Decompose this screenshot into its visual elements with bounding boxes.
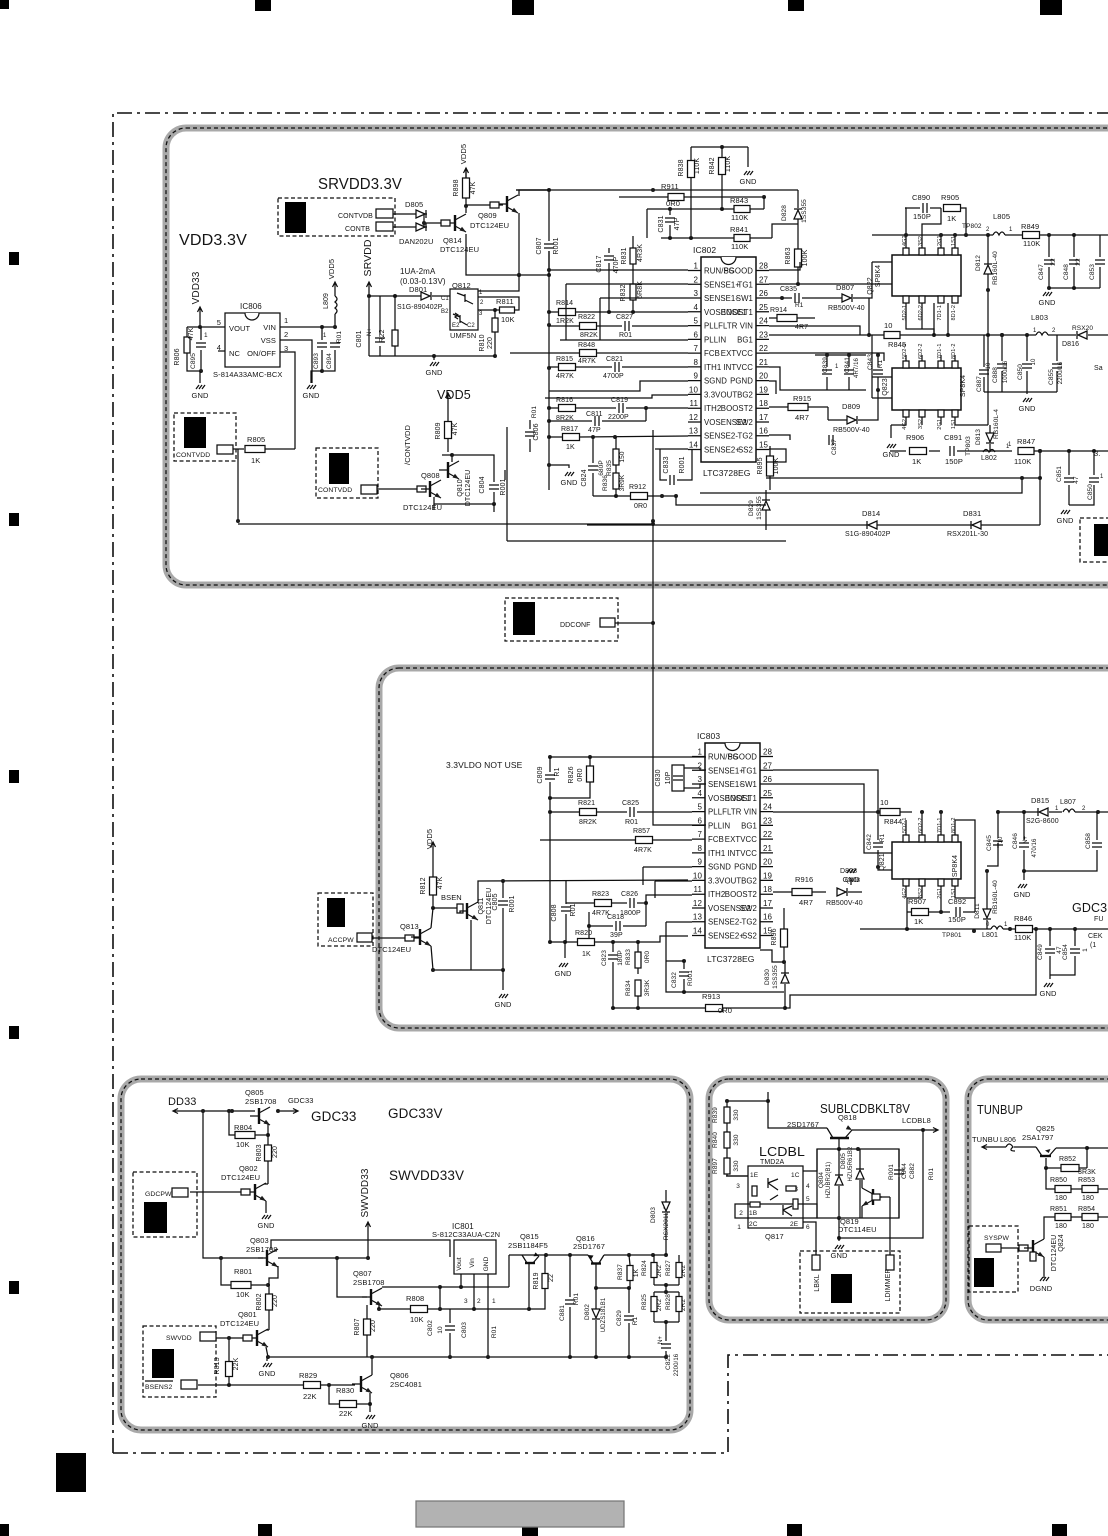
svg-text:DTC124EU: DTC124EU [440,245,479,254]
wire Q814 emitter down [422,213,426,228]
diode D830 SS355 vertical [764,962,789,1008]
capacitor C811 2200P [549,408,646,426]
wire Q824 collector [1044,1217,1046,1239]
svg-text:C847: C847 [1038,264,1045,280]
svg-text:VSS: VSS [261,336,276,345]
ground Q801 [259,1347,276,1378]
svg-text:Q811: Q811 [478,897,485,914]
wire Q817 pin6 to LBKL [803,1222,816,1255]
net label CEK [1088,933,1103,949]
resistor R829 22K [229,1371,355,1401]
svg-text:5D2-1: 5D2-1 [902,818,908,833]
footer gray bar [416,1501,624,1527]
svg-text:R831: R831 [621,247,628,264]
transistor Q803 2SB1708 [246,1236,278,1267]
power supply block 1 outline [166,128,1108,585]
wire left bus x548 [547,251,551,490]
resistor R895b 100K vertical [771,908,788,964]
transistor Q805 2SB1708 [245,1088,277,1125]
net label VDD5 [437,388,471,402]
svg-text:10P: 10P [665,771,672,784]
svg-text:330: 330 [733,1160,740,1171]
svg-text:C801: C801 [356,330,363,347]
svg-text:22: 22 [548,1274,555,1282]
svg-text:SWVDD33V: SWVDD33V [389,1168,464,1183]
svg-text:R822: R822 [578,314,595,321]
svg-text:SS2: SS2 [742,932,757,941]
resistor R851 R854 row [1046,1206,1108,1230]
svg-text:R913: R913 [702,992,720,1001]
svg-text:2SB1708: 2SB1708 [353,1278,385,1287]
wire bottom rail accpw [431,920,505,972]
svg-text:N+: N+ [367,328,373,336]
svg-text:R850: R850 [1050,1177,1067,1184]
ground under Q812 [369,354,495,377]
svg-text:RSX201L-30: RSX201L-30 [947,531,988,538]
svg-text:BOOST2: BOOST2 [725,890,757,899]
svg-text:TP801: TP801 [942,932,962,939]
svg-text:C882: C882 [909,1163,916,1179]
svg-text:7D1-1: 7D1-1 [937,305,943,320]
svg-text:SWVDD33: SWVDD33 [360,1168,371,1217]
svg-text:ITH1: ITH1 [708,849,725,858]
svg-text:R815: R815 [556,356,573,363]
svg-text:1E: 1E [750,1172,759,1179]
svg-text:47P: 47P [588,427,601,434]
resistor R817 1K 47P [549,426,688,451]
diode D816 [1062,331,1108,348]
svg-text:Q807: Q807 [353,1269,372,1278]
ground Q802 [258,1201,275,1230]
resistor R01 vertical at L809 [336,331,343,344]
net label GDC33 big [311,1109,357,1124]
svg-text:2: 2 [1052,328,1056,334]
diode D813 vertical [975,425,994,452]
svg-text:Q817: Q817 [765,1232,784,1241]
svg-text:GDC33: GDC33 [288,1096,314,1105]
svg-text:Q822: Q822 [867,277,874,295]
svg-text:R01: R01 [928,1168,935,1181]
svg-text:LCDBL8: LCDBL8 [902,1116,931,1125]
svg-text:C881: C881 [559,1305,566,1321]
capacitor C847 22 [1038,235,1057,290]
registration mark top 4 [788,0,804,11]
svg-text:R897: R897 [712,1158,719,1174]
svg-text:D803: D803 [650,1207,657,1223]
wire rail y190 [516,188,798,208]
svg-text:LTC3728EG: LTC3728EG [703,468,751,478]
net label SRVDD3.3V [318,176,403,193]
resistor R830 22K [329,1385,372,1418]
ground Q823 [883,417,988,459]
svg-text:8: 8 [697,844,702,853]
svg-text:150: 150 [619,451,626,462]
power arrow above R809 [446,393,451,404]
svg-text:47K: 47K [452,422,459,435]
svg-text:GND: GND [303,391,320,400]
net label DD33 [168,1096,197,1108]
resistor R857 4R7K [540,828,692,854]
svg-text:PLLFLTR: PLLFLTR [704,322,738,331]
svg-text:1K: 1K [633,1268,640,1277]
svg-text:C818: C818 [607,914,624,921]
capacitor C817 470P vertical [596,248,620,314]
resistor R805 1K [233,435,295,465]
svg-text:47K: 47K [437,876,444,889]
resistor R850 R853 row [1046,1168,1108,1202]
diode D807 RB500V-40 [815,262,872,312]
svg-text:VDD5: VDD5 [459,144,468,164]
svg-text:2E: 2E [790,1221,799,1228]
resistor R822 8R2K [549,314,622,339]
svg-text:0R0: 0R0 [666,199,680,208]
svg-text:UDZS181B1: UDZS181B1 [601,1297,607,1332]
capacitor C892 150P [948,897,975,924]
svg-text:9: 9 [693,372,698,381]
svg-text:C848: C848 [1063,264,1070,280]
svg-text:3: 3 [464,1298,468,1305]
svg-text:L803: L803 [1031,313,1048,322]
svg-text:4G2: 4G2 [902,419,908,430]
svg-text:DTC114EU: DTC114EU [838,1225,877,1234]
wire SWVDD to Q801 [216,1337,243,1339]
resistor R845 10 [769,321,906,349]
diode D809 RB500V-40 [828,390,878,434]
svg-text:FU: FU [1094,916,1104,923]
svg-text:12: 12 [693,899,703,908]
svg-text:2: 2 [284,330,288,339]
wire SYSPW to Q824 [1001,1245,1028,1251]
resistor R01 block4 vertical [837,1130,935,1240]
svg-text:TUNBUP: TUNBUP [977,1102,1023,1117]
svg-text:R839: R839 [712,1107,719,1123]
wire Q821 pins [878,810,975,914]
svg-text:R841: R841 [730,225,748,234]
power module Q821 SP8K4 [879,818,961,899]
svg-text:VDD5: VDD5 [425,829,434,849]
svg-text:Vin: Vin [469,1258,476,1268]
svg-text:1S1: 1S1 [951,236,957,246]
diode D811 vertical [974,843,998,929]
svg-text:R844: R844 [884,817,902,826]
svg-text:1: 1 [1008,442,1012,448]
svg-text:8D1-2: 8D1-2 [951,305,957,320]
svg-text:150P: 150P [948,915,966,924]
capacitor C842 R1 vertical [866,810,886,869]
wire bottom net right up [1038,449,1042,525]
connector DDCONF [505,598,618,641]
svg-text:GND: GND [831,1251,848,1260]
svg-text:11: 11 [693,885,702,894]
svg-text:R1: R1 [795,302,804,309]
inductor L801 [982,922,1008,939]
svg-text:2: 2 [739,1210,743,1217]
svg-text:4: 4 [693,303,698,312]
svg-text:C826: C826 [621,891,638,898]
svg-text:ITH1: ITH1 [704,363,721,372]
svg-text:1: 1 [697,748,702,757]
capacitor C803 R01 vertical [461,1322,498,1338]
svg-text:Q801: Q801 [238,1310,257,1319]
svg-text:22K: 22K [233,1357,240,1370]
registration mark big bottom-left [56,1453,86,1492]
svg-text:BG1: BG1 [741,821,757,830]
transistor Q813 DTC124EU [372,922,431,954]
svg-text:8R2K: 8R2K [580,332,598,339]
inductor L802 [981,444,1010,462]
svg-text:SENSE2+: SENSE2+ [708,932,744,941]
svg-text:R01: R01 [570,903,577,916]
resistor R839 330 vertical [712,1099,740,1123]
svg-text:220: 220 [487,337,494,349]
capacitor C881 R01 vertical [559,1255,580,1359]
wire Q809 to top rail [466,190,551,277]
capacitor C826 1800P [620,891,692,917]
svg-text:C811: C811 [586,411,603,418]
net label LCDBL big [759,1144,805,1159]
svg-text:C2: C2 [467,323,475,329]
svg-text:SW2: SW2 [740,904,757,913]
svg-text:PLLIN: PLLIN [708,821,730,830]
svg-text:39P: 39P [610,932,623,939]
power VDD5 arrow at L809 [327,259,338,290]
svg-text:D831: D831 [963,509,981,518]
svg-text:1R2K: 1R2K [556,318,574,325]
svg-text:IC806: IC806 [240,302,262,311]
svg-text:C835: C835 [780,286,797,293]
capacitor C891 150P [944,433,968,466]
capacitor C804 vertical [479,470,499,504]
svg-text:R001: R001 [500,478,507,495]
svg-text:110K: 110K [731,213,748,222]
svg-text:Q818: Q818 [838,1113,857,1122]
svg-text:SWVDD: SWVDD [166,1335,192,1342]
svg-text:110K: 110K [1023,239,1040,248]
svg-text:C829: C829 [616,1310,623,1326]
svg-text:SS2: SS2 [738,446,753,455]
svg-text:TG2: TG2 [742,918,757,927]
capacitor C855 2200/16 vertical [1048,335,1064,392]
svg-text:1K: 1K [566,444,575,451]
svg-text:R846: R846 [1014,914,1032,923]
svg-text:27: 27 [763,761,773,770]
svg-text:4R7K: 4R7K [556,373,574,380]
svg-text:10K: 10K [236,1140,250,1149]
svg-text:UMF5N: UMF5N [450,331,476,340]
resistor R897 330 vertical [712,1148,748,1176]
svg-text:PLLIN: PLLIN [704,335,726,344]
registration mark left 4 [9,1026,19,1039]
svg-text:110K: 110K [694,158,701,174]
resistor R912 0R0 [593,484,678,510]
wire LDIMMER riser [889,1197,891,1255]
svg-text:6D2-2: 6D2-2 [918,344,924,359]
svg-text:1S1: 1S1 [951,419,957,429]
svg-text:C821: C821 [606,356,623,363]
resistor R815 4R7K [549,356,612,380]
svg-text:E2: E2 [452,323,460,329]
svg-text:R916: R916 [795,875,813,884]
svg-text:3.3VOUT: 3.3VOUT [704,390,737,399]
capacitor C854 1 [1050,929,1089,975]
svg-text:10: 10 [880,798,889,807]
svg-text:1: 1 [204,332,208,339]
wire top rail srvdd [516,189,549,191]
svg-text:SENSE2+: SENSE2+ [704,446,740,455]
svg-text:GND: GND [362,1421,379,1430]
resistor R914 4R7 [769,307,815,331]
wire top rail to R838/R842 [691,145,748,149]
capacitor C848 22 [1063,235,1082,290]
resistor R807 220 vertical [354,1305,377,1357]
inductor L807 [1055,799,1108,814]
wire pin27 to Q822 [769,283,872,285]
svg-text:D829: D829 [748,500,755,516]
wire Q811 collector rail [478,879,688,903]
svg-text:R01: R01 [491,1326,498,1339]
capacitor C806 vertical [525,420,540,452]
inductor RB160L-40 vertical b2 [992,880,999,914]
ground ACCPW cluster [495,970,512,1009]
svg-text:6: 6 [697,816,702,825]
resistor R001b vertical [509,895,516,912]
svg-text:GDC33V: GDC33V [388,1106,443,1121]
ground right mid [984,392,1057,413]
svg-text:RB500V-40: RB500V-40 [833,427,870,434]
capacitor C890 150P [905,193,941,221]
svg-text:R863: R863 [785,247,792,264]
svg-text:2SC4081: 2SC4081 [390,1380,422,1389]
svg-text:C893: C893 [313,353,320,369]
svg-text:R801: R801 [234,1267,252,1276]
svg-text:TG1: TG1 [742,766,757,775]
svg-text:1: 1 [1033,328,1037,334]
svg-text:C849: C849 [1037,944,1044,960]
page frame border [113,113,1108,1453]
net label VDD3.3V [179,232,248,249]
svg-text:FCB: FCB [704,349,720,358]
svg-text:5D2-1: 5D2-1 [902,305,908,320]
svg-text:7D1-1: 7D1-1 [937,818,943,833]
svg-text:27: 27 [759,275,769,284]
svg-text:28: 28 [763,748,773,757]
wire Q806 collector [371,1357,373,1375]
svg-text:BSENS2: BSENS2 [145,1384,173,1391]
svg-text:Q823: Q823 [882,378,889,396]
svg-text:SW1: SW1 [736,294,753,303]
svg-text:R811: R811 [496,297,514,306]
svg-text:IC802: IC802 [693,245,716,255]
svg-text:LCDBL: LCDBL [759,1144,805,1159]
capacitor C822 2200/16 vertical [658,1322,680,1376]
capacitor C830 10P box [655,765,706,791]
resistor R843 110K [647,196,764,238]
test point TP801 [942,929,976,939]
svg-text:13: 13 [693,913,703,922]
svg-text:C809: C809 [537,766,544,783]
svg-text:CONTVDB: CONTVDB [338,213,373,220]
svg-text:TMD2A: TMD2A [760,1159,784,1166]
svg-text:R812: R812 [420,877,427,894]
wire CONTVDB to diode [393,213,416,215]
svg-text:20: 20 [763,858,773,867]
wire pin10 step [545,395,688,398]
resistor R849 110K [872,222,1108,248]
wire Q809 collector [464,202,503,213]
registration mark bottom 4 [787,1524,802,1536]
svg-text:R849: R849 [1021,222,1039,231]
resistor base Q808 [417,486,426,492]
svg-text:C843: C843 [867,354,874,370]
svg-text:24: 24 [759,317,769,326]
svg-text:2SB1184F5: 2SB1184F5 [508,1241,548,1250]
svg-text:10: 10 [689,385,699,394]
svg-text:D816: D816 [1062,341,1079,348]
svg-text:8R2K: 8R2K [579,819,597,826]
svg-text:3: 3 [697,775,702,784]
svg-text:C846: C846 [1012,833,1019,849]
svg-text:GND: GND [192,391,209,400]
svg-text:C830: C830 [655,769,662,786]
svg-text:PGOOD: PGOOD [727,753,757,762]
svg-text:R838: R838 [678,159,685,176]
svg-text:2: 2 [1082,806,1086,812]
svg-text:SRVDD: SRVDD [362,239,374,276]
svg-text:SUBLCDBKLT8V: SUBLCDBKLT8V [820,1101,910,1116]
inductor L805 [962,212,1013,235]
svg-text:C837: C837 [831,439,838,455]
svg-text:GND: GND [258,1221,275,1230]
svg-text:C850: C850 [1017,364,1024,380]
resistor R838 110K vertical [678,147,701,240]
svg-text:NC: NC [229,349,241,358]
wire left bus block2 [548,798,552,944]
svg-text:RB160L-4: RB160L-4 [993,409,1000,439]
svg-text:R808: R808 [406,1294,424,1303]
svg-text:7: 7 [697,830,702,839]
svg-text:3R9K: 3R9K [619,474,626,491]
svg-text:PGND: PGND [734,863,757,872]
svg-text:R825: R825 [641,1294,648,1310]
svg-text:R848: R848 [578,342,595,349]
arrow DD33 left [173,1109,205,1114]
svg-text:IC803: IC803 [697,731,720,741]
capacitor C849 47 [1037,929,1063,975]
net label BSEN [441,893,462,902]
svg-text:R914: R914 [770,307,787,314]
wire Q803 rail [271,1240,450,1260]
svg-text:8D1-2: 8D1-2 [951,344,957,359]
resistor R801 10K [219,1256,270,1299]
ground under Q808 area [433,504,435,510]
svg-text:VDD5: VDD5 [327,259,336,279]
registration mark top-left [0,0,9,9]
svg-text:19: 19 [763,871,773,880]
svg-text:C850: C850 [1087,484,1094,500]
capacitor C850 vertical [1017,335,1037,392]
svg-text:R01: R01 [625,819,638,826]
svg-text:SENSE1+: SENSE1+ [704,280,740,289]
svg-text:2200/16: 2200/16 [1058,361,1064,384]
svg-text:ACCPW: ACCPW [328,937,354,944]
wire Q817 pin 1C to diodes [803,1149,817,1171]
svg-text:R802: R802 [256,1293,263,1310]
svg-text:R805: R805 [247,435,265,444]
resistor R821 8R2K [550,800,627,826]
svg-text:23: 23 [763,816,773,825]
transistor Q818 2SD1767 [787,1113,938,1151]
capacitor C853 [1089,235,1105,288]
